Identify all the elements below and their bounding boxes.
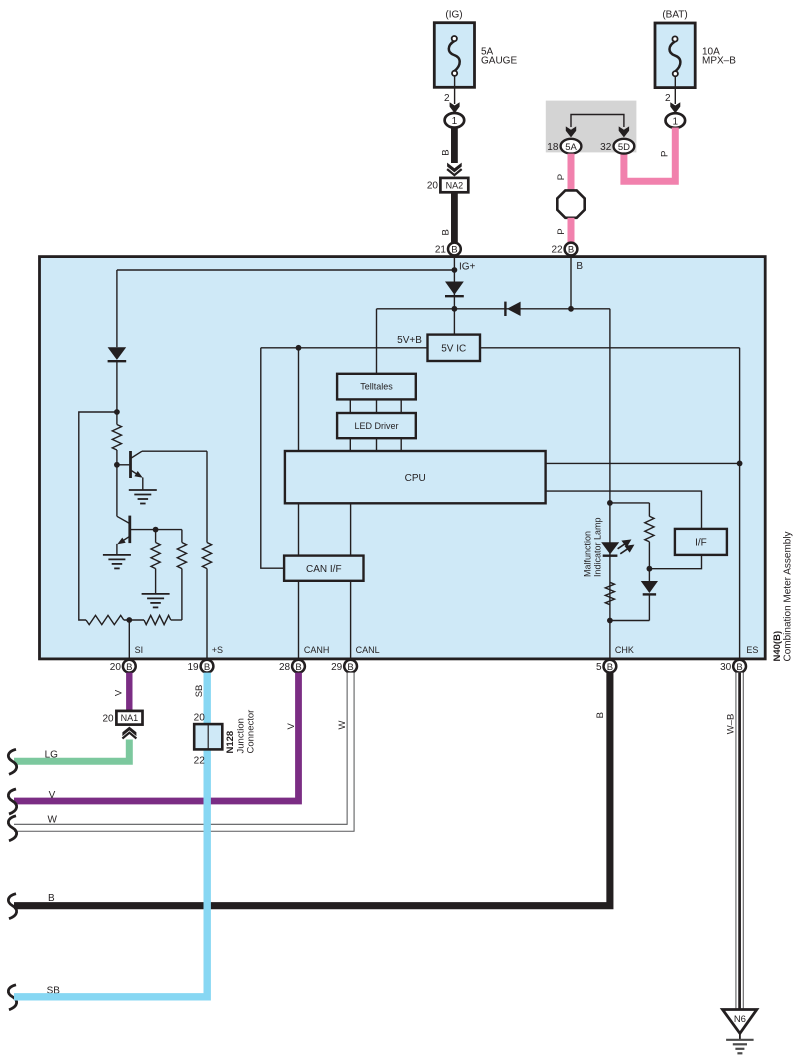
wire 5V IC output to right rail (480, 347, 740, 349)
node SI (126, 617, 132, 623)
pin 5 (B) CHK (604, 660, 617, 673)
wire IG+ to left circuit (117, 269, 455, 271)
wire CHK net vertical (609, 309, 611, 659)
wire CANH inside (298, 581, 300, 659)
noise filter octagon (557, 190, 584, 217)
svg-text:20: 20 (110, 662, 122, 673)
wire LG (green) (14, 740, 129, 762)
wire 5V+B rail (377, 308, 610, 310)
svg-text:B: B (440, 149, 451, 155)
resistor R1 (112, 425, 121, 451)
CPU box (285, 451, 546, 503)
wire CPU to I/F (546, 491, 702, 529)
svg-text:29: 29 (331, 662, 343, 673)
LED emission arrows (618, 540, 633, 553)
node B (pin22 inside) (570, 257, 572, 309)
wire branch down to CPU (298, 348, 300, 451)
pin 30 (B) ES (733, 660, 746, 673)
pin 28 (B) CANH (292, 660, 305, 673)
Telltales box (337, 374, 416, 400)
pin 21 (B) (448, 243, 461, 256)
node IG+ (453, 257, 455, 282)
5V IC box (428, 335, 481, 361)
node B junction (568, 306, 574, 312)
svg-text:B: B (451, 245, 457, 256)
wires telltales to led driver (349, 399, 351, 413)
svg-text:W: W (337, 721, 348, 730)
wire P pink (624, 128, 675, 182)
svg-text:CHK: CHK (615, 645, 634, 655)
svg-text:32: 32 (600, 142, 612, 153)
svg-text:20: 20 (427, 181, 439, 192)
wire W-B (ES to ground) (735, 673, 743, 1010)
svg-text:+S: +S (212, 645, 223, 655)
svg-text:20: 20 (194, 712, 206, 723)
svg-text:19: 19 (187, 662, 199, 673)
break V (8, 789, 16, 814)
wire 5V+B branch down to CAN I/F (261, 348, 284, 568)
svg-text:1: 1 (452, 116, 458, 127)
svg-text:IG+: IG+ (459, 262, 476, 273)
break B (8, 894, 16, 919)
pin 20 (B) SI (123, 660, 136, 673)
node Q1 base (114, 462, 120, 468)
diode D1 (IG+ feed) (453, 282, 455, 335)
node left top (114, 409, 120, 415)
svg-text:CAN I/F: CAN I/F (306, 564, 342, 575)
wire V (SI to NA1) (126, 673, 132, 711)
diode D4 (left circuit) (116, 270, 118, 347)
svg-text:28: 28 (279, 662, 291, 673)
svg-text:5V IC: 5V IC (441, 344, 466, 355)
wire branch dot to I/F bottom (649, 555, 701, 569)
svg-text:5: 5 (596, 662, 602, 673)
svg-text:Connector: Connector (246, 710, 257, 754)
svg-text:SI: SI (135, 645, 144, 655)
svg-text:P: P (556, 174, 567, 180)
svg-text:ES: ES (746, 645, 758, 655)
break W (8, 816, 16, 841)
junction connector N128 (194, 724, 222, 749)
wire branch vertical (648, 503, 650, 517)
wire B (CHK, black) (14, 673, 610, 906)
wire branch bottom (610, 620, 650, 622)
svg-text:B: B (736, 662, 742, 673)
svg-text:18: 18 (547, 142, 559, 153)
wire right rail down to ES (739, 348, 741, 659)
LED Driver box (337, 413, 416, 438)
resistor R4 (+S pull) (206, 451, 208, 542)
fuse 5A GAUGE (IG) (434, 23, 474, 88)
svg-text:V: V (114, 689, 125, 696)
svg-text:1: 1 (673, 116, 679, 127)
node Q2 collector (153, 527, 159, 533)
ground (R2) (142, 593, 170, 595)
svg-text:N128: N128 (225, 731, 236, 754)
wires led driver to cpu (349, 438, 351, 451)
splice chevrons (447, 163, 462, 173)
svg-text:NA1: NA1 (121, 713, 139, 723)
svg-text:LG: LG (45, 750, 59, 761)
connector 1 (IG) (445, 113, 465, 128)
svg-text:N6: N6 (734, 1014, 746, 1025)
pin 22 (B) (565, 243, 578, 256)
pin 29 (B) CANL (344, 660, 357, 673)
svg-text:CPU: CPU (405, 473, 426, 484)
svg-text:5V+B: 5V+B (397, 335, 422, 346)
svg-text:CANH: CANH (304, 645, 330, 655)
diode D2 (B to rail, pointing left) (507, 302, 521, 316)
wire 5V+B to 5V IC (261, 347, 428, 349)
svg-text:P: P (556, 228, 567, 234)
gray connector block (546, 101, 637, 153)
arrow into 5A (566, 126, 576, 137)
svg-text:21: 21 (435, 245, 447, 256)
connector 1 (BAT) (666, 113, 686, 128)
transistor Q2 (117, 516, 130, 523)
svg-text:(BAT): (BAT) (662, 9, 687, 20)
break LG (8, 749, 16, 774)
wires CPU to CAN I/F (298, 503, 300, 555)
svg-text:5D: 5D (618, 142, 630, 153)
svg-text:22: 22 (551, 245, 563, 256)
wire W (CANL, white) (14, 673, 351, 828)
resistor R3 (181, 530, 183, 543)
resistor R6 (SI chain right) (144, 615, 171, 624)
wire CPU to right rail (546, 462, 740, 464)
pin 19 (B) +S (201, 660, 214, 673)
wire left feedback (79, 412, 117, 620)
combination meter assembly box N40(B) (40, 257, 766, 659)
svg-text:B: B (607, 662, 613, 673)
resistor below LED (605, 582, 614, 604)
svg-text:30: 30 (720, 662, 732, 673)
resistor R5 (SI chain left) (86, 615, 124, 624)
wire base chain down (116, 465, 118, 517)
wire fuse to connector 1 (454, 76, 456, 104)
node diode junction (452, 306, 458, 312)
diode D3 (branch) (641, 581, 658, 593)
wire SB (sky blue) (14, 673, 207, 997)
svg-text:W–B: W–B (726, 714, 737, 735)
svg-text:B: B (440, 229, 451, 235)
arrow into 5D (619, 126, 629, 137)
resistor parallel branch (645, 516, 654, 542)
wire B thick (451, 192, 458, 242)
wire branch top (610, 502, 650, 504)
wire P pink (568, 154, 575, 191)
svg-text:Malfunction: Malfunction (583, 531, 593, 577)
svg-text:2: 2 (665, 93, 671, 104)
svg-text:Telltales: Telltales (360, 382, 393, 392)
wire SI down (128, 620, 130, 659)
junction NA1 (116, 711, 142, 725)
svg-text:B: B (347, 662, 353, 673)
junction NA2 (440, 178, 468, 192)
svg-text:2: 2 (444, 93, 450, 104)
svg-text:Indicator Lamp: Indicator Lamp (593, 517, 603, 577)
svg-text:5A: 5A (565, 142, 577, 153)
CAN I/F box (284, 556, 363, 581)
wire Q1 collector rail (142, 450, 207, 452)
wire rail down to telltales (376, 309, 378, 374)
ground (Q2 emitter) (103, 554, 131, 556)
arrow into connector 1 (450, 102, 460, 113)
transistor Q1 (117, 464, 129, 466)
svg-text:MPX–B: MPX–B (702, 56, 736, 67)
svg-text:B: B (126, 662, 132, 673)
wire V (CANH) (14, 673, 299, 801)
svg-text:B: B (576, 261, 583, 272)
wire CANL inside (350, 581, 352, 659)
svg-text:NA2: NA2 (446, 180, 464, 190)
svg-text:CANL: CANL (356, 645, 380, 655)
wire fuse to connector 1 (674, 76, 676, 104)
svg-text:B: B (295, 662, 301, 673)
svg-text:(IG): (IG) (445, 9, 462, 20)
arrow into connector 1 (670, 102, 680, 113)
break SB (8, 985, 16, 1010)
svg-text:SB: SB (194, 685, 205, 698)
connector 5A (561, 139, 582, 154)
svg-text:P: P (660, 151, 671, 157)
svg-text:B: B (48, 893, 55, 904)
splice chevrons (up) (122, 727, 136, 737)
fuse 10A MPX-B (BAT) (655, 23, 695, 88)
I/F box (675, 529, 727, 555)
svg-text:LED Driver: LED Driver (354, 421, 398, 431)
malfunction indicator lamp LED (601, 542, 619, 554)
svg-text:V: V (49, 790, 56, 801)
svg-text:GAUGE: GAUGE (481, 56, 517, 67)
resistor R2 (155, 530, 157, 543)
svg-text:B: B (568, 245, 574, 256)
ground (Q1 emitter) (129, 489, 157, 491)
svg-text:B: B (595, 712, 606, 718)
wire P pink (568, 218, 575, 242)
wire 5A to 5D link (571, 115, 624, 128)
connector 5D (614, 139, 635, 154)
svg-text:Combination Meter Assembly: Combination Meter Assembly (783, 531, 794, 661)
wire B thick (451, 127, 458, 163)
svg-text:N40(B): N40(B) (772, 631, 783, 662)
svg-text:B: B (204, 662, 210, 673)
svg-text:22: 22 (194, 756, 206, 767)
svg-text:V: V (286, 723, 297, 730)
ground N6 (723, 1010, 757, 1034)
svg-text:W: W (48, 814, 58, 825)
svg-text:I/F: I/F (695, 537, 707, 548)
svg-text:20: 20 (102, 714, 114, 725)
